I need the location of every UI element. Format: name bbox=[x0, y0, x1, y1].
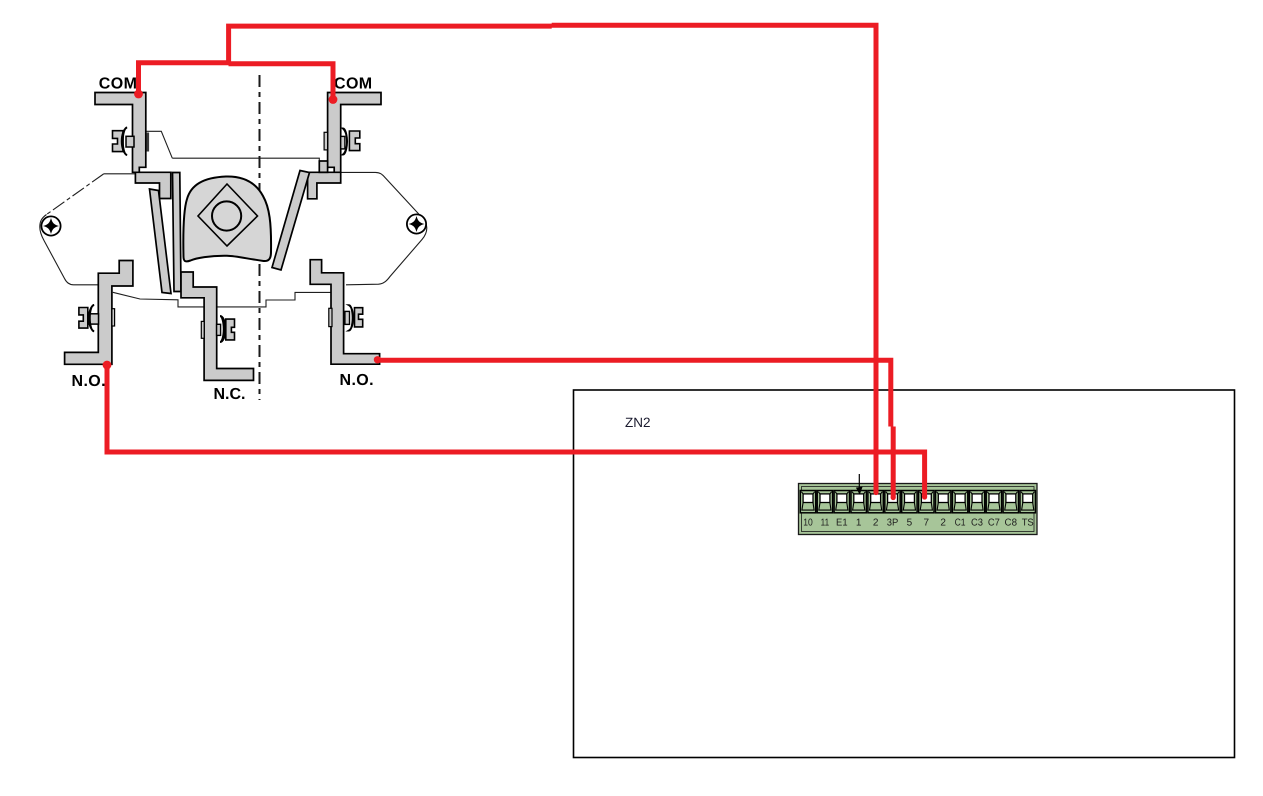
terminal C8 bbox=[1003, 491, 1018, 513]
cam diamond bbox=[198, 184, 258, 246]
svg-text:N.O.: N.O. bbox=[340, 372, 375, 389]
COM terminal bracket right bbox=[328, 93, 381, 173]
body outline top-left small trapezoid and top edge bbox=[146, 131, 328, 166]
shadow sliver right of left COM bar bbox=[147, 133, 150, 152]
body inner bottom stepped outline bbox=[113, 292, 344, 307]
svg-text:2: 2 bbox=[940, 518, 946, 529]
contact holder left bbox=[135, 172, 170, 198]
svg-text:C3: C3 bbox=[971, 518, 983, 529]
terminal C3 bbox=[969, 491, 984, 513]
terminal TS bbox=[1020, 491, 1035, 513]
svg-text:7: 7 bbox=[924, 518, 930, 529]
COM terminal bracket left bbox=[95, 93, 146, 173]
junction dot COM right bbox=[329, 95, 338, 104]
contact blade left inner bbox=[173, 173, 182, 292]
wire N.O. left to 7 bbox=[107, 364, 925, 497]
cam dome bbox=[183, 176, 271, 261]
svg-text:ZN2: ZN2 bbox=[625, 415, 651, 430]
svg-text:TS: TS bbox=[1022, 518, 1034, 529]
svg-text:N.O.: N.O. bbox=[72, 373, 107, 390]
wire COM riser to top rail bbox=[229, 25, 876, 492]
contact holder right tab bbox=[319, 161, 327, 172]
N.O. terminal right bbox=[310, 260, 379, 365]
wire tip terminal 2 bbox=[873, 490, 878, 495]
svg-text:5: 5 bbox=[907, 518, 913, 529]
svg-text:C8: C8 bbox=[1005, 518, 1018, 529]
mount screw left bbox=[41, 216, 60, 235]
screw clamp N.O. right bbox=[329, 305, 363, 330]
terminal 3P bbox=[885, 491, 900, 513]
terminal 1 bbox=[851, 491, 866, 513]
terminal block ZN2 bbox=[799, 484, 1038, 535]
screw clamp COM right bbox=[324, 129, 360, 155]
terminal cells bbox=[800, 491, 1035, 513]
terminal C1 bbox=[952, 491, 967, 513]
cam circle bbox=[212, 201, 241, 230]
body outline left dash-dot diagonal bbox=[47, 174, 104, 215]
junction dot COM left bbox=[134, 90, 143, 99]
svg-text:1: 1 bbox=[856, 518, 862, 529]
wire N.O. right to 3P bbox=[377, 360, 894, 497]
svg-text:3P: 3P bbox=[887, 518, 899, 529]
wire tip terminal 7 bbox=[922, 494, 927, 499]
svg-text:N.C.: N.C. bbox=[214, 386, 246, 403]
terminal 7 bbox=[919, 491, 934, 513]
screw clamp N.C. bbox=[201, 316, 234, 342]
terminal C7 bbox=[986, 491, 1001, 513]
wire COM jumper bbox=[139, 63, 334, 101]
terminal 2 bbox=[936, 491, 951, 513]
svg-text:COM: COM bbox=[99, 75, 138, 92]
svg-text:COM: COM bbox=[334, 75, 373, 92]
junction dot N.O. right bbox=[374, 356, 381, 363]
terminal 11 bbox=[817, 491, 832, 513]
svg-text:11: 11 bbox=[821, 518, 830, 529]
body outline right top edge and right point bbox=[341, 172, 427, 284]
terminal 10 bbox=[800, 491, 815, 513]
N.C. terminal bbox=[181, 272, 254, 380]
contact blade right bbox=[272, 171, 310, 271]
ZN2 control box bbox=[574, 390, 1235, 758]
svg-text:2: 2 bbox=[873, 518, 879, 529]
svg-text:10: 10 bbox=[803, 518, 813, 529]
terminal 5 bbox=[902, 491, 917, 513]
wire tip terminal 3P bbox=[891, 495, 896, 500]
terminal 2 bbox=[868, 491, 883, 513]
terminal E1 bbox=[834, 491, 849, 513]
arrow into terminal 1 bbox=[856, 474, 863, 495]
N.O. terminal left bbox=[65, 261, 133, 365]
body outline left point and lower-left edge bbox=[40, 215, 99, 285]
body outline left horizontal at armature bbox=[104, 173, 136, 175]
mount screw right bbox=[407, 214, 426, 233]
dashed center line bbox=[259, 75, 261, 400]
contact holder right bbox=[308, 172, 341, 199]
svg-text:C7: C7 bbox=[988, 518, 1000, 529]
terminal labels bbox=[803, 518, 1034, 529]
screw clamp COM left bbox=[113, 128, 135, 156]
screw clamp N.O. left bbox=[79, 305, 115, 331]
contact blade left outer bbox=[150, 189, 172, 294]
junction dot N.O. left bbox=[103, 361, 112, 370]
svg-text:C1: C1 bbox=[955, 518, 966, 529]
svg-text:E1: E1 bbox=[836, 518, 848, 529]
